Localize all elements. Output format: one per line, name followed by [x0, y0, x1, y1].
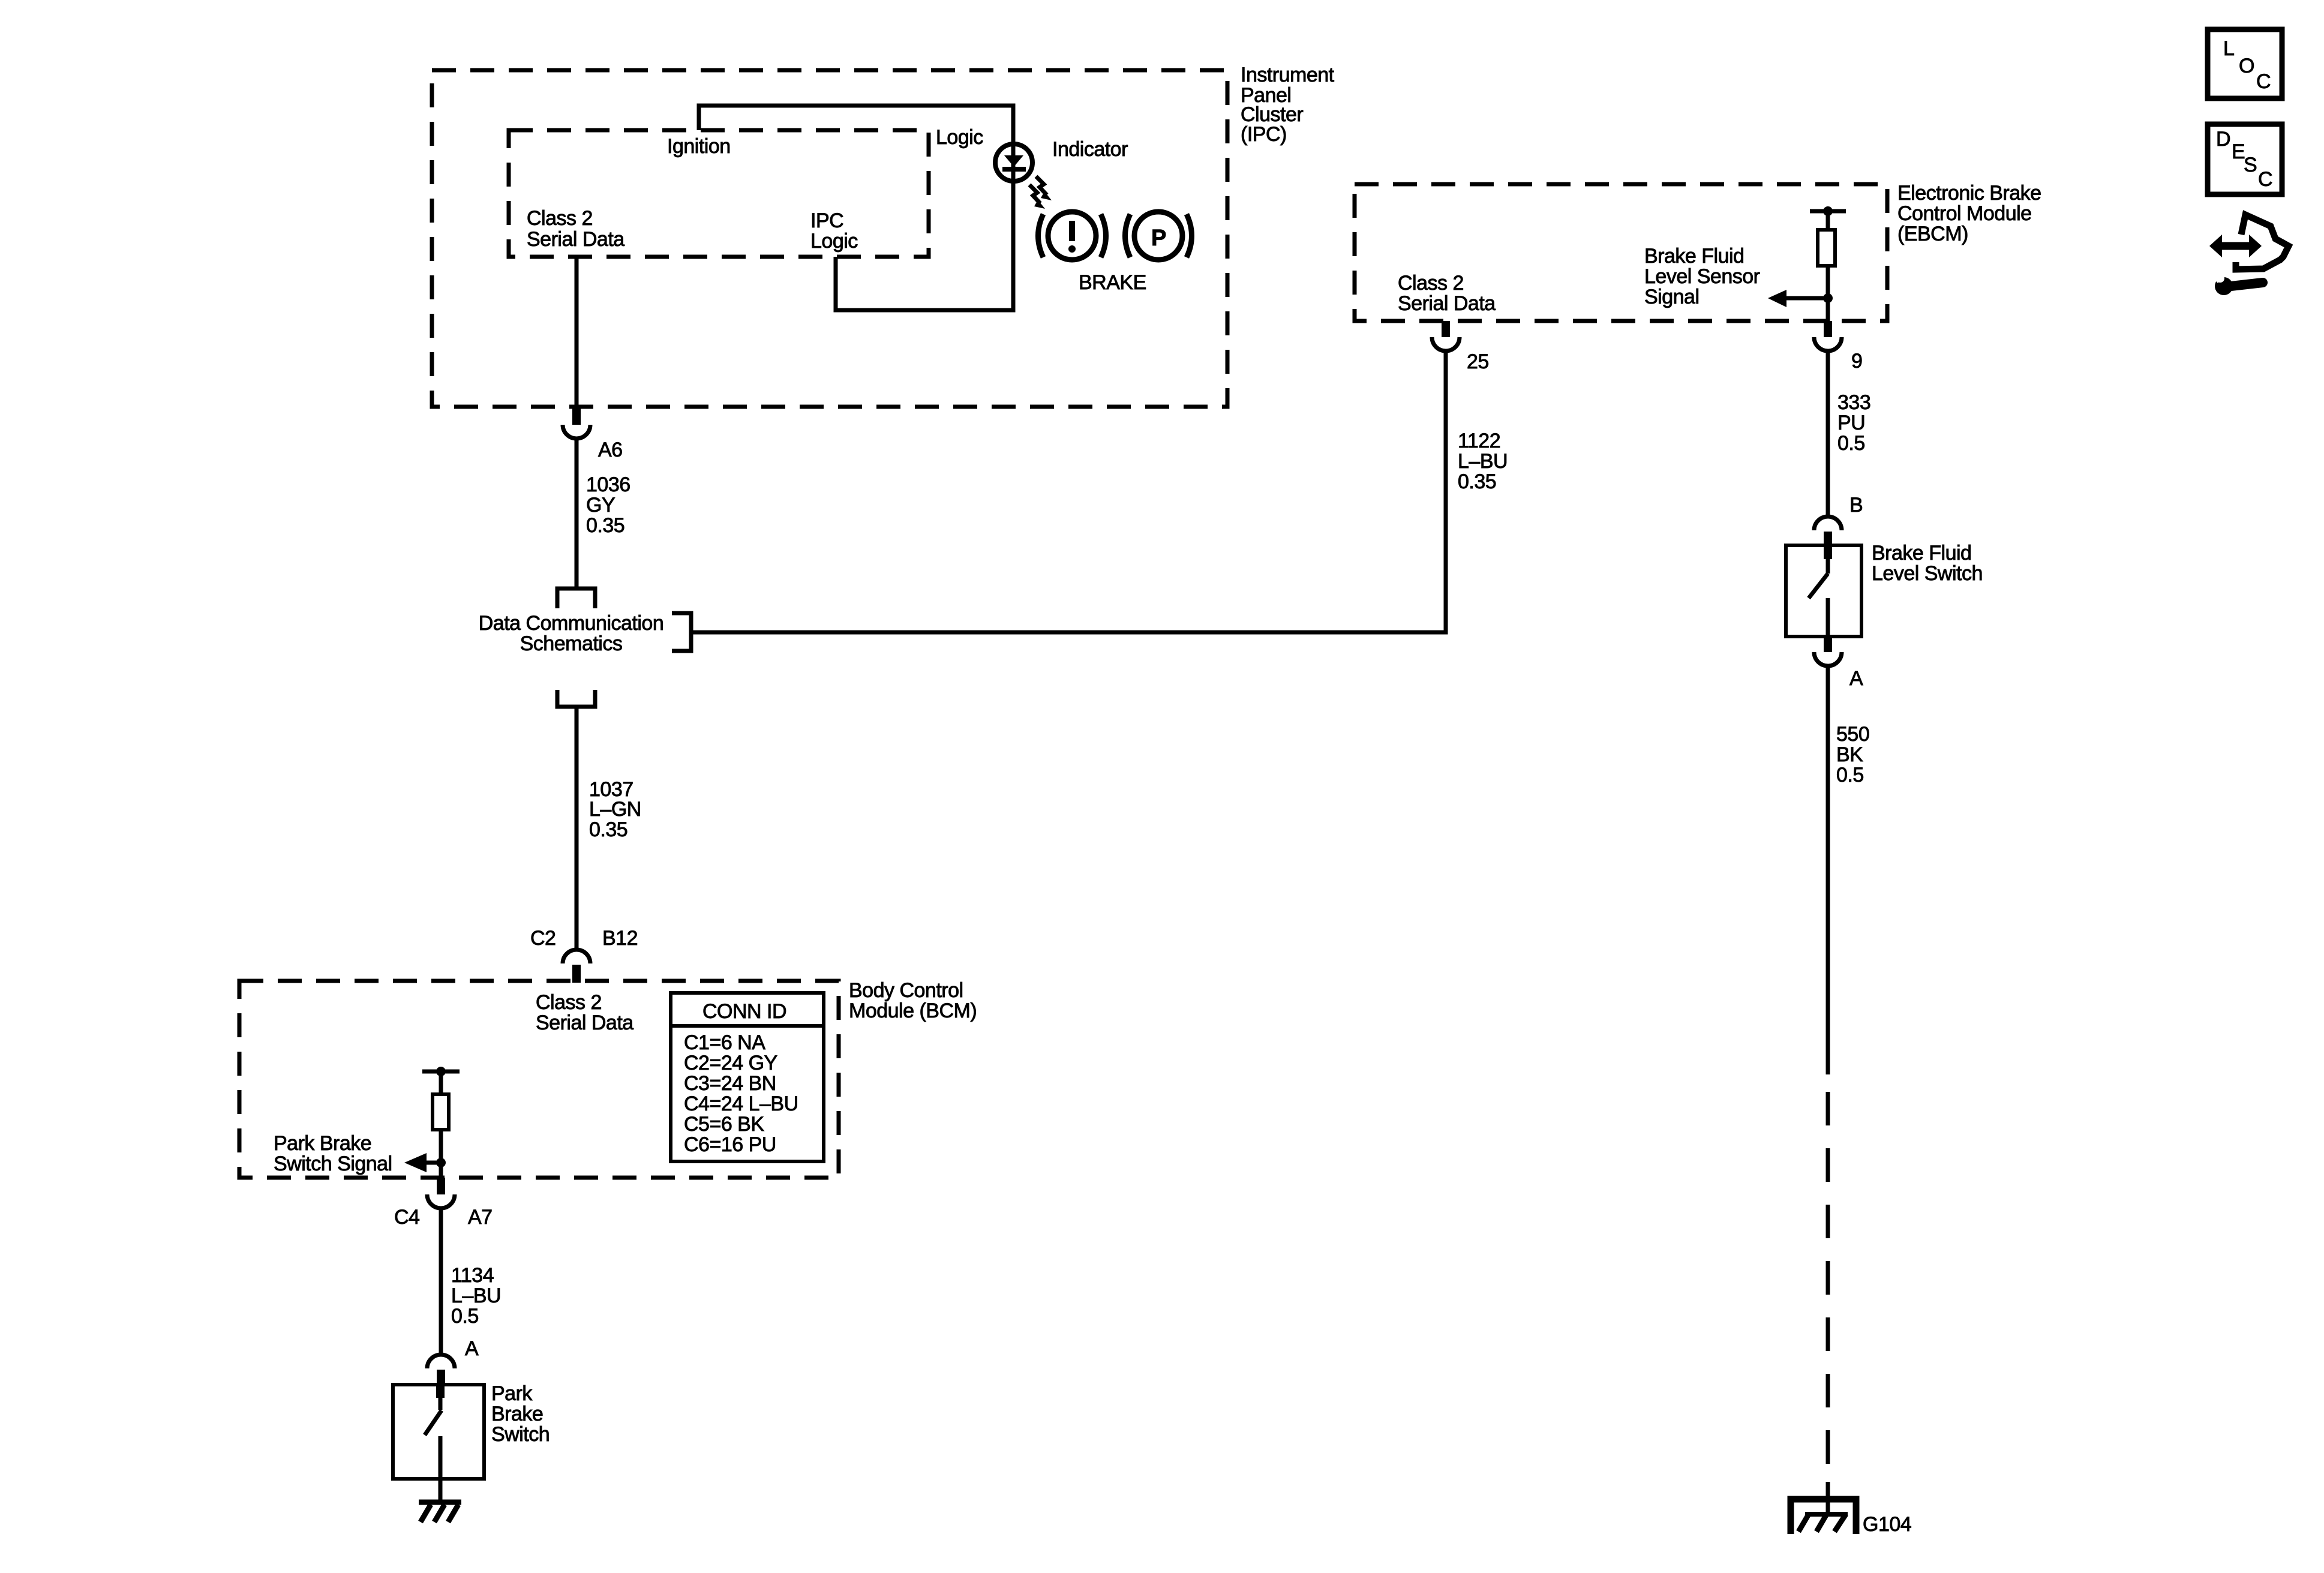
label Logic [936, 126, 983, 149]
svg-text:Control Module: Control Module [1897, 202, 2032, 225]
label Park Brake Switch [491, 1382, 550, 1446]
svg-text:Brake: Brake [491, 1403, 543, 1425]
park brake switch S1 box [393, 1385, 484, 1479]
label BRAKE [1079, 271, 1146, 294]
connector A6 arc [563, 425, 590, 439]
electronic brake control module EBCM dashed box [1355, 184, 1887, 321]
instrument panel cluster IPC dashed box [432, 70, 1227, 407]
chassis ground (park brake switch) [419, 1502, 461, 1522]
svg-text:0.5: 0.5 [451, 1305, 479, 1328]
svg-text:A: A [1849, 667, 1863, 690]
label Class 2 Serial Data (IPC) [527, 207, 624, 251]
label Brake Fluid Level Sensor Signal [1644, 245, 1760, 308]
svg-text:C: C [2258, 168, 2272, 191]
svg-text:Class 2: Class 2 [536, 991, 602, 1014]
wire to resistor [439, 1071, 443, 1094]
svg-text:(EBCM): (EBCM) [1897, 223, 1968, 245]
svg-text:Brake Fluid: Brake Fluid [1872, 542, 1971, 565]
brake fluid level switch contacts [1809, 545, 1828, 637]
svg-text:G104: G104 [1863, 1513, 1911, 1536]
data communication schematics bottom bracket [557, 690, 595, 707]
label Indicator [1052, 138, 1128, 161]
connector A arc [427, 1355, 455, 1368]
adjust/replace icon: double arrow [2209, 235, 2262, 257]
svg-text:Schematics: Schematics [520, 632, 623, 655]
label 25 [1467, 350, 1489, 373]
connector A arc (brake fluid switch) [1814, 652, 1842, 666]
svg-text:550: 550 [1836, 723, 1869, 746]
connector C2/B12 arc [563, 950, 590, 963]
label IPC Logic [810, 209, 858, 253]
svg-text:Park Brake: Park Brake [274, 1132, 371, 1155]
wire serial data bus to EBCM [691, 351, 1446, 632]
label Class 2 Serial Data (BCM) [536, 991, 633, 1034]
svg-text:P: P [1151, 226, 1166, 251]
label G104 [1863, 1513, 1911, 1536]
label 1134 L-BU 0.5 [451, 1264, 501, 1328]
svg-text:C5=6 BK: C5=6 BK [684, 1113, 764, 1136]
park brake switch contacts [425, 1385, 442, 1479]
svg-text:L–BU: L–BU [1458, 450, 1508, 473]
wire to resistor [1826, 211, 1830, 230]
label B [1849, 494, 1863, 517]
label 333 PU 0.5 [1837, 391, 1870, 455]
DESC legend box [2208, 124, 2282, 194]
svg-text:0.35: 0.35 [586, 514, 624, 537]
IPC inner logic dashed box [509, 130, 929, 257]
ground G104 symbol [1791, 1499, 1856, 1534]
svg-text:Signal: Signal [1644, 286, 1700, 308]
body control module BCM dashed box [239, 981, 839, 1178]
svg-text:Level Switch: Level Switch [1872, 562, 1983, 585]
svg-text:E: E [2232, 140, 2245, 163]
wire 1036 [575, 439, 579, 589]
EBCM label [1897, 182, 2041, 245]
svg-text:1036: 1036 [586, 473, 630, 496]
park brake switch signal arrow [404, 1153, 441, 1172]
LED light arrows [1029, 176, 1052, 209]
svg-text:Logic: Logic [810, 230, 858, 253]
brake fluid level sensor signal arrow [1768, 290, 1828, 307]
svg-text:B: B [1849, 494, 1863, 517]
svg-text:Instrument: Instrument [1241, 64, 1335, 86]
connector 9 arc [1814, 337, 1842, 351]
svg-text:Electronic Brake: Electronic Brake [1897, 182, 2041, 205]
wire 1037 [575, 707, 579, 950]
connector 25 stub [1442, 321, 1450, 337]
svg-text:0.5: 0.5 [1836, 764, 1864, 786]
svg-text:Serial Data: Serial Data [527, 228, 624, 251]
connector 9 stub [1824, 321, 1832, 337]
svg-text:1134: 1134 [451, 1264, 494, 1287]
EBCM internal supply bar [1810, 209, 1846, 214]
CONN ID table [671, 993, 824, 1161]
svg-text:Indicator: Indicator [1052, 138, 1128, 161]
wire through LED [1011, 142, 1016, 184]
junction dot [1823, 206, 1833, 216]
label 550 BK 0.5 [1836, 723, 1869, 786]
connector 25 arc [1432, 337, 1460, 351]
svg-text:Brake Fluid: Brake Fluid [1644, 245, 1744, 268]
svg-text:L–GN: L–GN [589, 798, 641, 821]
label A6 [598, 439, 623, 461]
svg-text:BK: BK [1836, 743, 1863, 766]
connector C4/A7 arc [427, 1194, 455, 1208]
ground stub G104 [1826, 1482, 1830, 1514]
LED indicator U1 [995, 144, 1032, 181]
wire resistor to junction [439, 1130, 443, 1178]
svg-text:C2=24 GY: C2=24 GY [684, 1052, 777, 1074]
svg-text:Ignition: Ignition [667, 135, 731, 158]
svg-text:0.35: 0.35 [1458, 470, 1496, 493]
data communication schematics top bracket [557, 589, 595, 608]
svg-text:Park: Park [491, 1382, 533, 1405]
svg-text:Serial Data: Serial Data [536, 1011, 633, 1034]
label 1036 GY 0.35 [586, 473, 630, 537]
svg-text:0.5: 0.5 [1837, 432, 1865, 455]
connector C2/B12 stub [572, 965, 581, 983]
svg-text:A: A [465, 1337, 479, 1360]
svg-text:CONN ID: CONN ID [702, 1000, 786, 1023]
label A [465, 1337, 479, 1360]
svg-text:Logic: Logic [936, 126, 983, 149]
label 9 [1851, 350, 1862, 373]
svg-text:25: 25 [1467, 350, 1489, 373]
svg-text:A6: A6 [598, 439, 623, 461]
svg-text:Switch: Switch [491, 1423, 550, 1446]
svg-text:BRAKE: BRAKE [1079, 271, 1146, 294]
svg-text:O: O [2239, 55, 2254, 77]
connector B arc [1814, 517, 1842, 530]
label A7 [468, 1206, 493, 1229]
resistor (BCM pull-up) [433, 1094, 449, 1130]
junction dot [436, 1067, 446, 1076]
park brake symbol (P) [1125, 212, 1192, 260]
wire 550 dashed run [1826, 1092, 1830, 1473]
svg-text:C6=16 PU: C6=16 PU [684, 1133, 776, 1156]
IPC label [1241, 64, 1335, 146]
svg-text:C1=6 NA: C1=6 NA [684, 1031, 765, 1054]
wire 1134 [439, 1208, 443, 1354]
svg-text:S: S [2244, 154, 2257, 176]
label C2 [530, 927, 556, 950]
wire ignition to LED anode [699, 106, 1013, 142]
svg-text:B12: B12 [602, 927, 638, 950]
brake fluid level switch box [1786, 545, 1861, 637]
label A [1849, 667, 1863, 690]
BCM internal supply bar [422, 1070, 460, 1074]
junction dot [1823, 293, 1833, 303]
label Park Brake Switch Signal [274, 1132, 392, 1175]
svg-text:Switch Signal: Switch Signal [274, 1152, 392, 1175]
svg-text:GY: GY [586, 494, 615, 517]
label Ignition [667, 135, 731, 158]
svg-text:Serial Data: Serial Data [1398, 292, 1496, 315]
svg-text:L: L [2223, 37, 2234, 60]
brake warning symbol (!) [1038, 212, 1106, 260]
LOC legend box [2208, 29, 2282, 98]
connector B stub [1824, 532, 1832, 546]
connector A stub (brake fluid switch) [1824, 637, 1832, 652]
svg-text:333: 333 [1837, 391, 1870, 414]
svg-text:PU: PU [1837, 412, 1865, 434]
label B12 [602, 927, 638, 950]
svg-text:C: C [2256, 70, 2271, 93]
wire resistor to junction [1826, 266, 1830, 321]
resistor (EBCM pull-up) [1818, 230, 1835, 266]
wire 550 solid [1826, 666, 1830, 1074]
svg-text:IPC: IPC [810, 209, 843, 232]
connector C4/A7 stub [437, 1178, 445, 1194]
label Class 2 Serial Data (EBCM) [1398, 272, 1496, 315]
adjust/replace icon: hand outline [2236, 215, 2289, 269]
svg-text:C4: C4 [394, 1206, 419, 1229]
svg-text:Level Sensor: Level Sensor [1644, 265, 1760, 288]
connector A stub [437, 1370, 445, 1386]
label 1037 L-GN 0.35 [589, 778, 641, 841]
svg-text:A7: A7 [468, 1206, 493, 1229]
wire to chassis ground [439, 1479, 443, 1502]
svg-text:C4=24 L–BU: C4=24 L–BU [684, 1092, 798, 1115]
label Brake Fluid Level Switch [1872, 542, 1983, 585]
svg-text:Data Communication: Data Communication [479, 612, 663, 635]
svg-text:9: 9 [1851, 350, 1862, 373]
svg-text:1122: 1122 [1458, 430, 1500, 452]
label C4 [394, 1206, 419, 1229]
svg-text:Module (BCM): Module (BCM) [849, 999, 977, 1022]
svg-text:Class 2: Class 2 [527, 207, 593, 230]
junction dot [436, 1158, 446, 1167]
adjust/replace icon: wrench [2211, 271, 2263, 295]
svg-text:C2: C2 [530, 927, 556, 950]
svg-text:D: D [2216, 128, 2230, 151]
svg-text:Body Control: Body Control [849, 979, 963, 1002]
data communication schematics right bracket [672, 613, 691, 651]
connector A6 stub [572, 406, 581, 425]
svg-text:C3=24 BN: C3=24 BN [684, 1072, 776, 1095]
wire 333 [1826, 351, 1830, 515]
svg-text:(IPC): (IPC) [1241, 123, 1287, 146]
svg-text:0.35: 0.35 [589, 818, 627, 841]
label 1122 L-BU 0.35 [1458, 430, 1508, 493]
wire class 2 serial data from IPC [575, 257, 579, 406]
svg-text:Class 2: Class 2 [1398, 272, 1464, 295]
svg-text:L–BU: L–BU [451, 1284, 501, 1307]
label Data Communication Schematics [479, 612, 663, 655]
wire IPC logic to LED cathode [836, 184, 1013, 310]
BCM label [849, 979, 977, 1022]
